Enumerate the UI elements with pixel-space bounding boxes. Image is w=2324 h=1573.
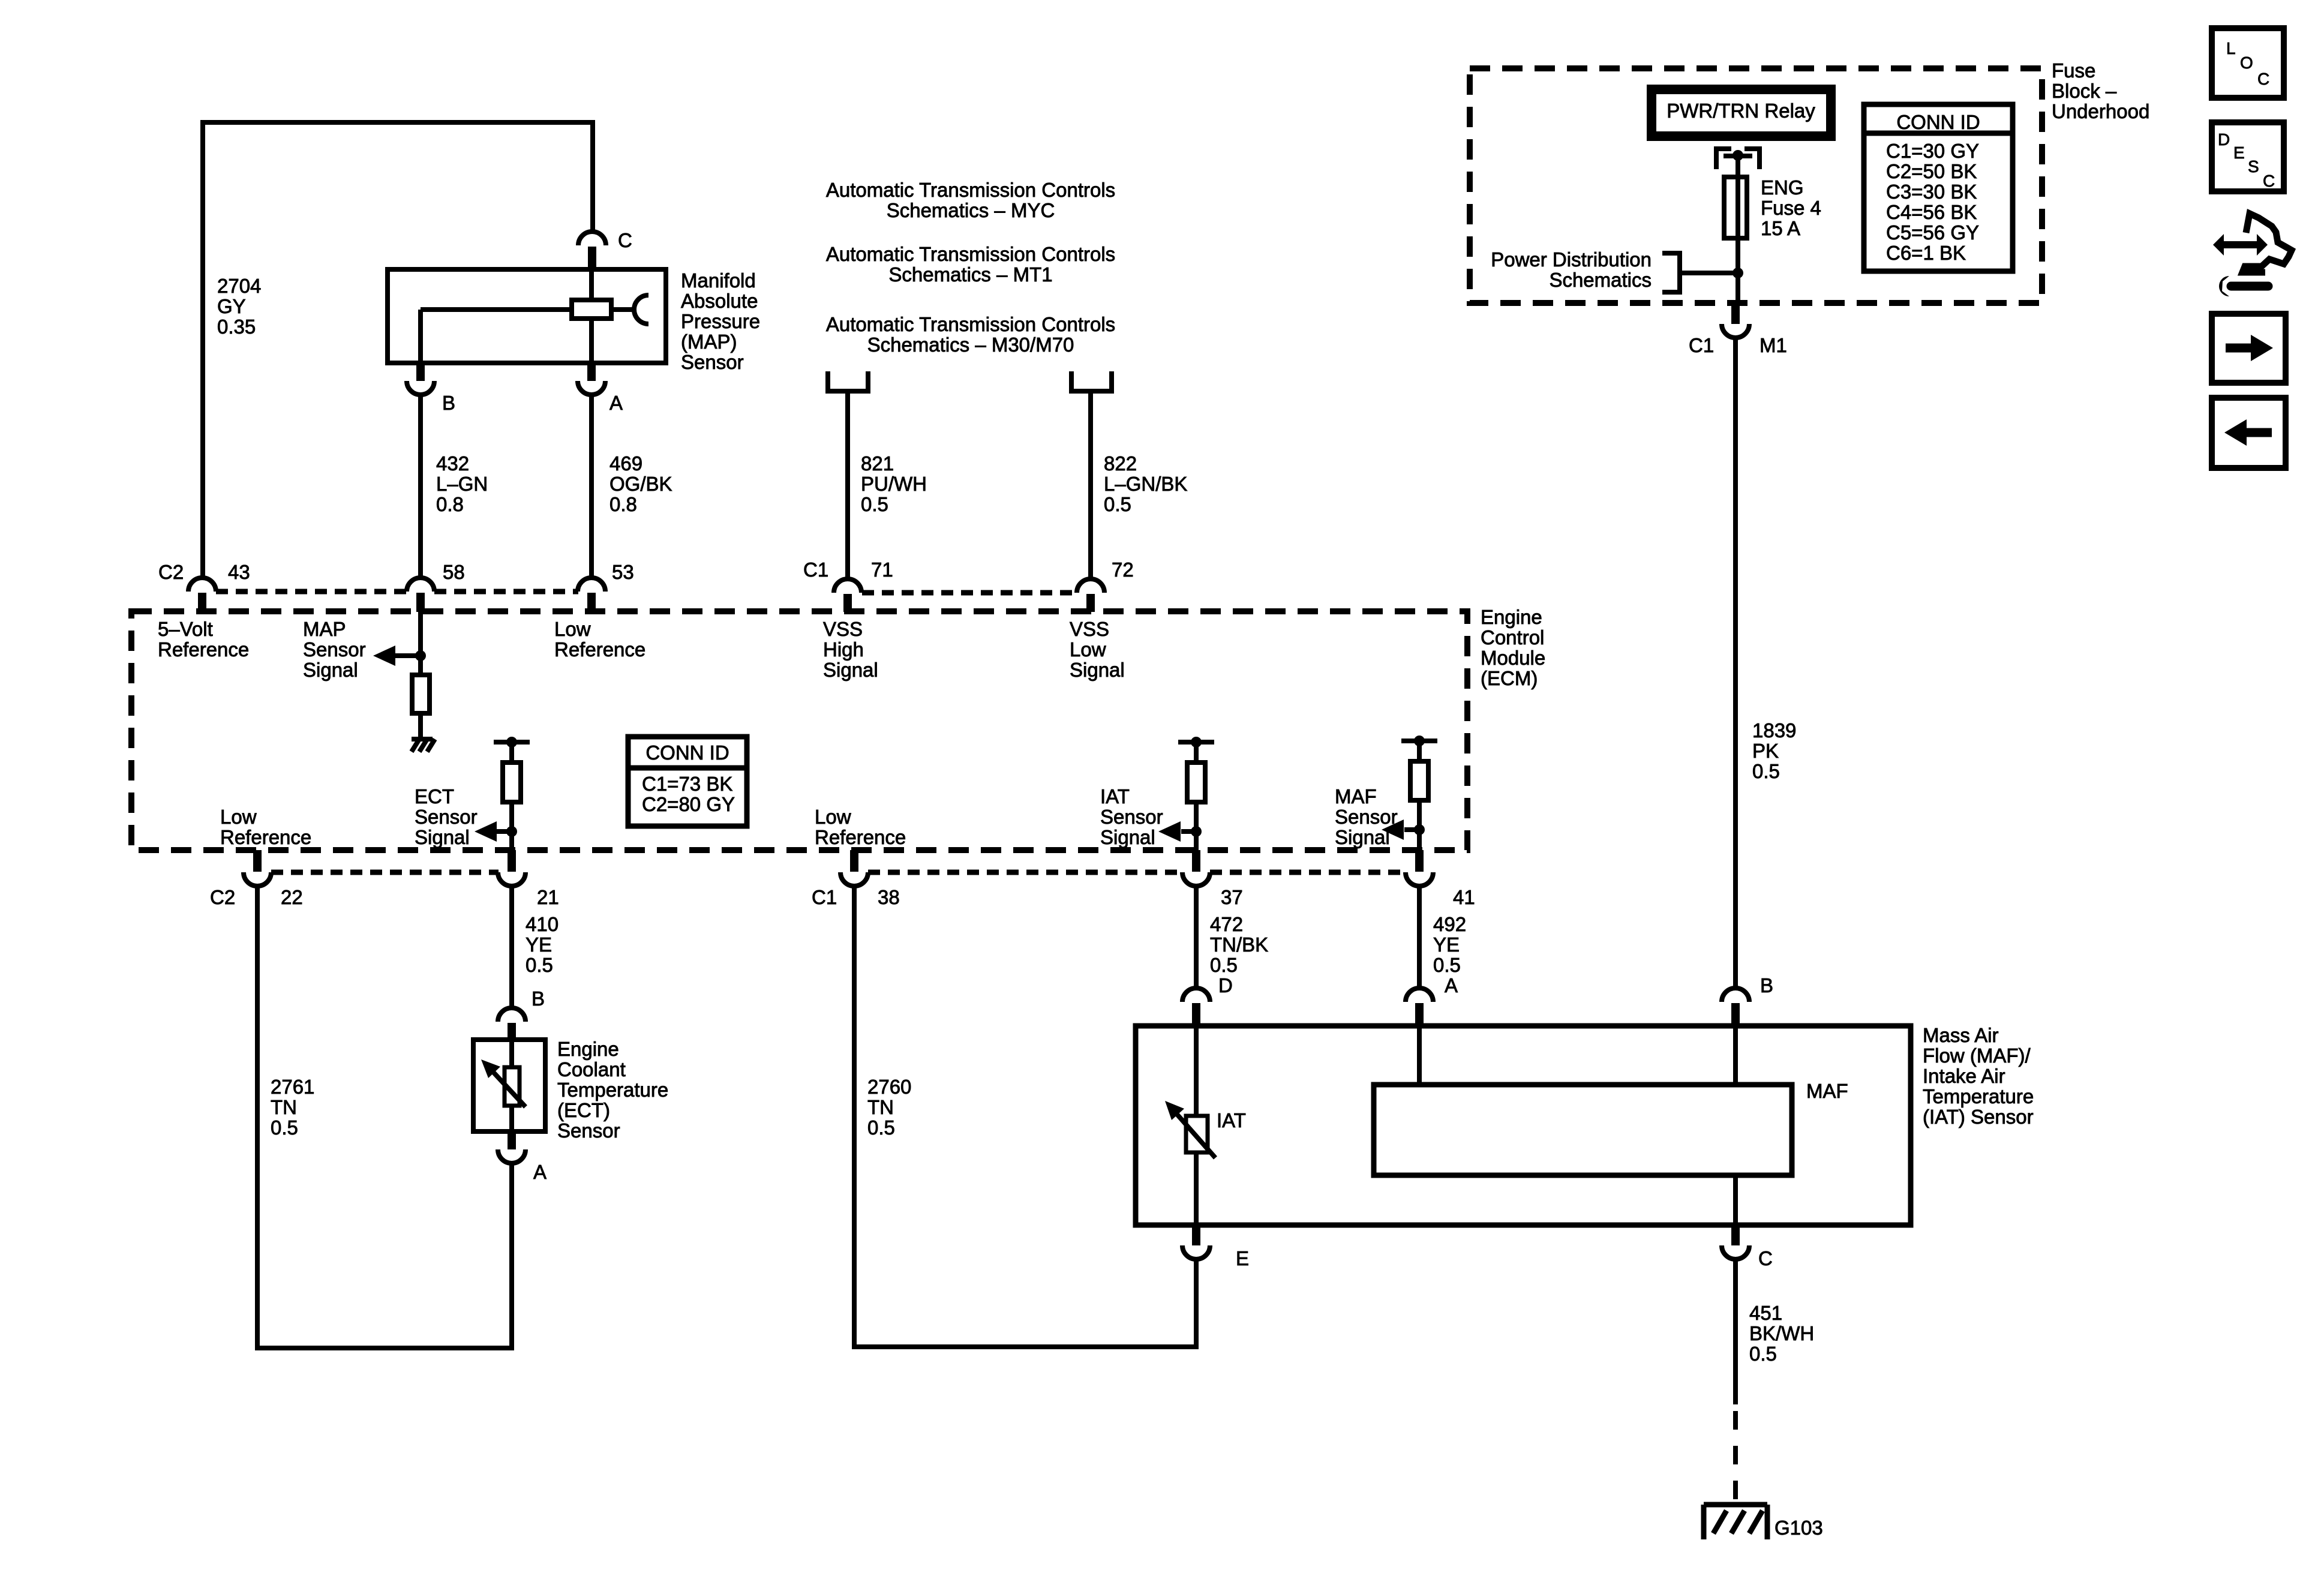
wire: MAP sensor pin C drop (590, 120, 595, 232)
svg-text:58: 58 (443, 561, 465, 583)
svg-text:C6=1 BK: C6=1 BK (1886, 242, 1966, 264)
svg-text:Absolute: Absolute (681, 290, 758, 312)
svg-text:0.5: 0.5 (1104, 493, 1131, 515)
wire: ECT tap upper (509, 742, 514, 763)
svg-text:CONN ID: CONN ID (645, 742, 729, 764)
resistor (ECM ECT signal) (503, 763, 521, 802)
connector pin 43 (5-volt reference) (188, 578, 216, 592)
svg-text:Schematics – MT1: Schematics – MT1 (888, 263, 1052, 286)
svg-text:Low: Low (554, 618, 591, 640)
ECM CONN ID table (628, 737, 747, 826)
wire: power distribution feed (1680, 271, 1738, 275)
svg-text:TN: TN (867, 1096, 894, 1118)
svg-text:PK: PK (1752, 740, 1779, 762)
svg-text:Reference: Reference (815, 826, 906, 848)
wire: relay to fuse to connector (1736, 155, 1740, 304)
connector B (MAP sensor) (416, 362, 425, 381)
svg-text:2760: 2760 (867, 1076, 911, 1098)
svg-text:C1=73 BK: C1=73 BK (642, 773, 732, 795)
wire: B to MAF module (1733, 1026, 1738, 1085)
svg-text:Signal: Signal (823, 659, 878, 681)
svg-text:Temperature: Temperature (557, 1079, 668, 1101)
svg-text:(IAT) Sensor: (IAT) Sensor (1923, 1106, 2034, 1128)
svg-text:CONN ID: CONN ID (1896, 111, 1980, 133)
svg-text:C: C (618, 229, 632, 251)
ECM connector C1 top row dashed line (862, 590, 1077, 596)
svg-text:L–GN: L–GN (436, 473, 488, 495)
svg-text:Signal: Signal (415, 826, 470, 848)
svg-text:B: B (1760, 974, 1773, 996)
svg-text:TN: TN (271, 1096, 297, 1118)
wire through MAP box (C to A) (589, 269, 594, 363)
svg-text:Sensor: Sensor (557, 1119, 620, 1142)
svg-text:0.35: 0.35 (217, 316, 256, 338)
svg-text:IAT: IAT (1100, 785, 1130, 807)
svg-text:472: 472 (1210, 913, 1243, 935)
wire 2760 TN (low reference to IAT) (852, 886, 857, 1347)
connector B (MAF sensor) (1722, 988, 1749, 1002)
junction dot (power distribution) (1733, 268, 1743, 278)
svg-text:410: 410 (526, 913, 559, 935)
ECT variable arrow (487, 1065, 526, 1107)
svg-text:High: High (823, 638, 864, 661)
svg-text:GY: GY (217, 295, 246, 317)
IAT variable arrow (1171, 1107, 1215, 1158)
svg-text:Automatic Transmission Control: Automatic Transmission Controls (826, 243, 1115, 265)
connector pin 53 (low reference) (578, 578, 605, 592)
svg-text:C1: C1 (803, 559, 828, 581)
svg-text:C1: C1 (812, 886, 837, 908)
svg-text:E: E (2233, 143, 2245, 162)
svg-text:Power Distribution: Power Distribution (1491, 248, 1652, 271)
svg-text:Mass Air: Mass Air (1923, 1024, 1999, 1046)
svg-text:O: O (2240, 53, 2253, 72)
svg-text:(MAP): (MAP) (681, 331, 737, 353)
svg-text:0.5: 0.5 (271, 1116, 298, 1139)
icon box: LOC (2212, 28, 2284, 98)
junction dot + arrow (MAP sensor signal) (415, 650, 426, 661)
MAP sensor box (388, 269, 666, 363)
svg-text:L–GN/BK: L–GN/BK (1104, 473, 1187, 495)
ECT sensor box (473, 1040, 545, 1131)
wire 410 YE (ECT signal) (509, 886, 514, 1008)
svg-text:822: 822 (1104, 452, 1137, 475)
svg-text:Intake Air: Intake Air (1923, 1065, 2005, 1087)
svg-text:Schematics: Schematics (1549, 269, 1652, 291)
svg-text:41: 41 (1453, 886, 1475, 908)
svg-text:0.5: 0.5 (526, 954, 553, 976)
svg-text:C1=30 GY: C1=30 GY (1886, 140, 1979, 162)
connector A (MAP sensor) (587, 362, 596, 381)
svg-text:Reference: Reference (220, 826, 311, 848)
junction dot (MAF tap top) (1414, 736, 1425, 746)
wire 2761 TN (low reference to ECT) (255, 886, 260, 1348)
wire: transducer to vacuum port (611, 307, 634, 312)
svg-text:21: 21 (537, 886, 559, 908)
connector A (ECT sensor) (508, 1131, 516, 1149)
connector C (MAF sensor) (1731, 1224, 1740, 1245)
svg-text:Schematics – M30/M70: Schematics – M30/M70 (867, 334, 1074, 356)
connector pin 41 (MAF signal) (1415, 850, 1424, 872)
svg-text:C3=30 BK: C3=30 BK (1886, 181, 1977, 203)
svg-text:0.5: 0.5 (1210, 954, 1238, 976)
relay contact brackets (1716, 149, 1731, 169)
resistor (ECM MAF signal) (1410, 761, 1428, 800)
wire: MAP signal inside ECM (418, 612, 423, 675)
svg-text:C: C (2257, 70, 2269, 88)
svg-text:YE: YE (1433, 933, 1460, 956)
svg-text:22: 22 (281, 886, 303, 908)
wire: IAT tap upper (1194, 742, 1199, 763)
IAT thermistor element (1186, 1116, 1208, 1152)
svg-text:E: E (1236, 1247, 1249, 1269)
svg-text:L: L (2226, 39, 2236, 58)
wire: MAF module to C (1733, 1175, 1738, 1225)
svg-text:1839: 1839 (1752, 719, 1796, 742)
resistor (ECM MAP signal) (412, 675, 430, 713)
wire 472 TN/BK (IAT signal) (1194, 886, 1199, 988)
svg-text:MAP: MAP (303, 618, 346, 640)
wire: MAF tap upper (1417, 741, 1422, 761)
svg-text:IAT: IAT (1217, 1109, 1246, 1131)
svg-text:VSS: VSS (1070, 618, 1109, 640)
svg-text:MAF: MAF (1335, 785, 1377, 807)
junction dot (relay output) (1733, 150, 1743, 161)
wire: 5-volt reference top rail (200, 120, 595, 125)
svg-text:Sensor: Sensor (1335, 806, 1398, 828)
svg-text:37: 37 (1221, 886, 1243, 908)
svg-text:YE: YE (526, 933, 552, 956)
svg-text:Module: Module (1481, 647, 1545, 669)
wire 432 L-GN (MAP signal) (418, 395, 423, 578)
svg-text:B: B (532, 987, 545, 1010)
wire 822 L-GN/BK (VSS low signal) (1088, 391, 1093, 578)
fuse block box (dashed) (1470, 68, 2042, 303)
connector pin 21 (ECT signal) (508, 850, 516, 872)
svg-text:5–Volt: 5–Volt (158, 618, 213, 640)
connector E (IAT sensor) (1192, 1224, 1200, 1245)
wire inside MAP sensor from B to transducer (418, 310, 423, 363)
ECT thermistor element (505, 1067, 520, 1106)
svg-text:Low: Low (220, 806, 257, 828)
connector A (MAF sensor) (1406, 988, 1433, 1002)
svg-text:0.5: 0.5 (1433, 954, 1461, 976)
svg-text:B: B (442, 392, 455, 414)
svg-text:A: A (1445, 974, 1458, 996)
wire: MAF tap lower (1417, 800, 1422, 850)
ECM connector C2 top row dashed line (216, 589, 408, 595)
svg-text:Automatic Transmission Control: Automatic Transmission Controls (826, 313, 1115, 335)
svg-text:C2=50 BK: C2=50 BK (1886, 160, 1977, 182)
IAT signal tap: top bar (1178, 740, 1214, 745)
wire: IAT thermistor to E (1194, 1152, 1199, 1225)
svg-text:Signal: Signal (1335, 826, 1390, 848)
connector pin 72 (VSS low) (1077, 579, 1104, 593)
svg-text:Schematics – MYC: Schematics – MYC (887, 199, 1055, 221)
svg-text:432: 432 (436, 452, 469, 475)
junction dot (ECT tap top) (506, 737, 517, 748)
wire 1839 PK (ignition feed to MAF) (1733, 338, 1738, 988)
ECM connector C2 bottom row dashed line (271, 870, 499, 875)
svg-text:Fuse 4: Fuse 4 (1761, 197, 1821, 219)
svg-text:Manifold: Manifold (681, 269, 756, 292)
svg-text:C1: C1 (1689, 334, 1714, 356)
svg-text:Signal: Signal (1070, 659, 1125, 681)
svg-text:43: 43 (228, 561, 250, 583)
svg-text:PU/WH: PU/WH (861, 473, 927, 495)
connector pin 71 (VSS high) (834, 579, 861, 593)
svg-text:0.5: 0.5 (1752, 760, 1780, 782)
icon box: forward arrow (2212, 314, 2286, 383)
svg-text:TN/BK: TN/BK (1210, 933, 1268, 956)
svg-text:ENG: ENG (1761, 176, 1804, 199)
junction dot + arrow (IAT sensor signal) (1191, 826, 1202, 837)
svg-text:VSS: VSS (823, 618, 863, 640)
svg-text:C: C (2263, 172, 2275, 190)
svg-text:Fuse: Fuse (2052, 59, 2095, 82)
svg-text:BK/WH: BK/WH (1749, 1322, 1814, 1344)
ECM connector C1 bottom row dashed line (868, 870, 1181, 875)
resistor (ECM IAT signal) (1187, 763, 1205, 802)
svg-text:Pressure: Pressure (681, 310, 760, 332)
svg-text:Sensor: Sensor (681, 351, 744, 373)
MAF signal tap: top bar (1401, 739, 1437, 743)
svg-text:D: D (1218, 974, 1233, 996)
MAP vacuum port crescent (634, 295, 648, 324)
svg-text:0.5: 0.5 (1749, 1343, 1777, 1365)
wire 451 BK/WH solid segment (1733, 1259, 1738, 1404)
svg-text:Signal: Signal (303, 659, 358, 681)
svg-text:M1: M1 (1759, 334, 1787, 356)
connector B (ECT sensor) (498, 1008, 526, 1022)
connector pin 22 (low reference) (253, 850, 262, 872)
PWR/TRN relay box (1652, 89, 1831, 136)
svg-text:C2: C2 (158, 561, 184, 583)
ECM module box (dashed) (131, 611, 1467, 850)
ECM internal ground (412, 737, 433, 742)
connector pin 58 (MAP sensor signal) (407, 578, 434, 592)
svg-text:71: 71 (871, 559, 893, 581)
svg-text:Signal: Signal (1100, 826, 1155, 848)
svg-text:Coolant: Coolant (557, 1058, 626, 1080)
connector pin 37 (IAT signal) (1192, 850, 1200, 872)
svg-text:0.5: 0.5 (861, 493, 888, 515)
wire: IAT return to low reference (1194, 1259, 1199, 1347)
svg-text:A: A (533, 1161, 547, 1183)
svg-text:PWR/TRN Relay: PWR/TRN Relay (1667, 100, 1815, 122)
svg-text:C5=56 GY: C5=56 GY (1886, 221, 1979, 244)
icon box: DESC (2212, 122, 2284, 191)
svg-text:492: 492 (1433, 913, 1466, 935)
fuse ENG Fuse 4 15A (1724, 177, 1747, 238)
svg-text:C2=80 GY: C2=80 GY (642, 793, 735, 815)
svg-text:S: S (2248, 157, 2259, 176)
svg-text:OG/BK: OG/BK (609, 473, 672, 495)
wire 821 PU/WH (VSS high signal) (845, 391, 850, 578)
svg-text:Automatic Transmission Control: Automatic Transmission Controls (826, 179, 1115, 201)
connector C1/M1 (fuse block output) (1731, 304, 1740, 324)
wire 492 YE (MAF signal) (1417, 886, 1422, 988)
svg-text:38: 38 (878, 886, 900, 908)
svg-text:451: 451 (1749, 1302, 1782, 1324)
connector C (MAP sensor) (578, 232, 606, 245)
junction dot + arrow (MAF sensor signal) (1414, 824, 1425, 835)
svg-text:Reference: Reference (158, 638, 249, 661)
wire: D to IAT thermistor (1194, 1026, 1199, 1116)
wire: IAT tap lower (1194, 802, 1199, 850)
wire 451 BK/WH dashed segment (1733, 1411, 1738, 1503)
svg-text:53: 53 (612, 561, 634, 583)
svg-text:MAF: MAF (1806, 1080, 1848, 1102)
svg-text:(ECM): (ECM) (1481, 667, 1538, 689)
svg-text:Sensor: Sensor (303, 638, 366, 661)
wire 469 OG/BK (MAP low reference) (589, 395, 594, 578)
connector D (IAT sensor) (1182, 988, 1210, 1002)
wire: resistor to internal ground (418, 713, 423, 739)
off-page connector bracket (VSS low) (1071, 371, 1112, 391)
MAF/IAT sensor outer box (1136, 1026, 1911, 1225)
wire 2704 GY (5-volt reference drop to pin 43) (200, 120, 205, 578)
svg-text:0.5: 0.5 (867, 1116, 895, 1139)
svg-text:G103: G103 (1774, 1517, 1823, 1539)
svg-text:Low: Low (1070, 638, 1106, 661)
MAF module inner box (1374, 1085, 1792, 1175)
svg-text:C2: C2 (210, 886, 235, 908)
svg-text:Reference: Reference (554, 638, 645, 661)
svg-text:Block –: Block – (2052, 80, 2117, 102)
junction dot + arrow (ECT sensor signal) (506, 826, 517, 837)
svg-text:Sensor: Sensor (415, 806, 478, 828)
MAP transducer element (572, 300, 611, 319)
svg-text:469: 469 (609, 452, 642, 475)
wire: ECT tap lower (509, 802, 514, 850)
svg-text:0.8: 0.8 (436, 493, 464, 515)
wire: A to MAF module (1417, 1026, 1422, 1085)
svg-text:Engine: Engine (1481, 606, 1542, 628)
ECT signal tap: top bar (494, 740, 530, 745)
svg-text:A: A (609, 392, 623, 414)
svg-text:D: D (2218, 130, 2230, 149)
svg-text:Sensor: Sensor (1100, 806, 1163, 828)
svg-text:0.8: 0.8 (609, 493, 637, 515)
svg-text:Low: Low (815, 806, 851, 828)
svg-text:2704: 2704 (217, 275, 261, 297)
svg-text:(ECT): (ECT) (557, 1099, 610, 1121)
icon box: back arrow (2212, 398, 2286, 468)
wire: ECT return to low reference (509, 1163, 514, 1348)
svg-text:821: 821 (861, 452, 894, 475)
svg-text:ECT: ECT (415, 785, 454, 807)
wire through ECT box (509, 1040, 514, 1067)
svg-text:Engine: Engine (557, 1038, 619, 1060)
svg-text:Control: Control (1481, 626, 1544, 649)
svg-text:Temperature: Temperature (1923, 1085, 2034, 1107)
connector pin 38 (low reference) (850, 850, 858, 872)
svg-text:Underhood: Underhood (2052, 100, 2149, 122)
icon: vehicle harness symbol (2242, 214, 2292, 272)
svg-text:Flow (MAF)/: Flow (MAF)/ (1923, 1044, 2031, 1067)
power distribution bracket (1662, 253, 1680, 292)
svg-text:C4=56 BK: C4=56 BK (1886, 201, 1977, 223)
svg-text:C: C (1758, 1247, 1773, 1269)
svg-text:15 A: 15 A (1761, 217, 1800, 239)
svg-text:72: 72 (1112, 559, 1134, 581)
ground G103 (1704, 1502, 1767, 1508)
fuse block CONN ID table (1864, 104, 2013, 271)
svg-text:2761: 2761 (271, 1076, 314, 1098)
junction dot (IAT tap top) (1191, 737, 1202, 748)
off-page connector bracket (VSS high) (828, 371, 868, 391)
